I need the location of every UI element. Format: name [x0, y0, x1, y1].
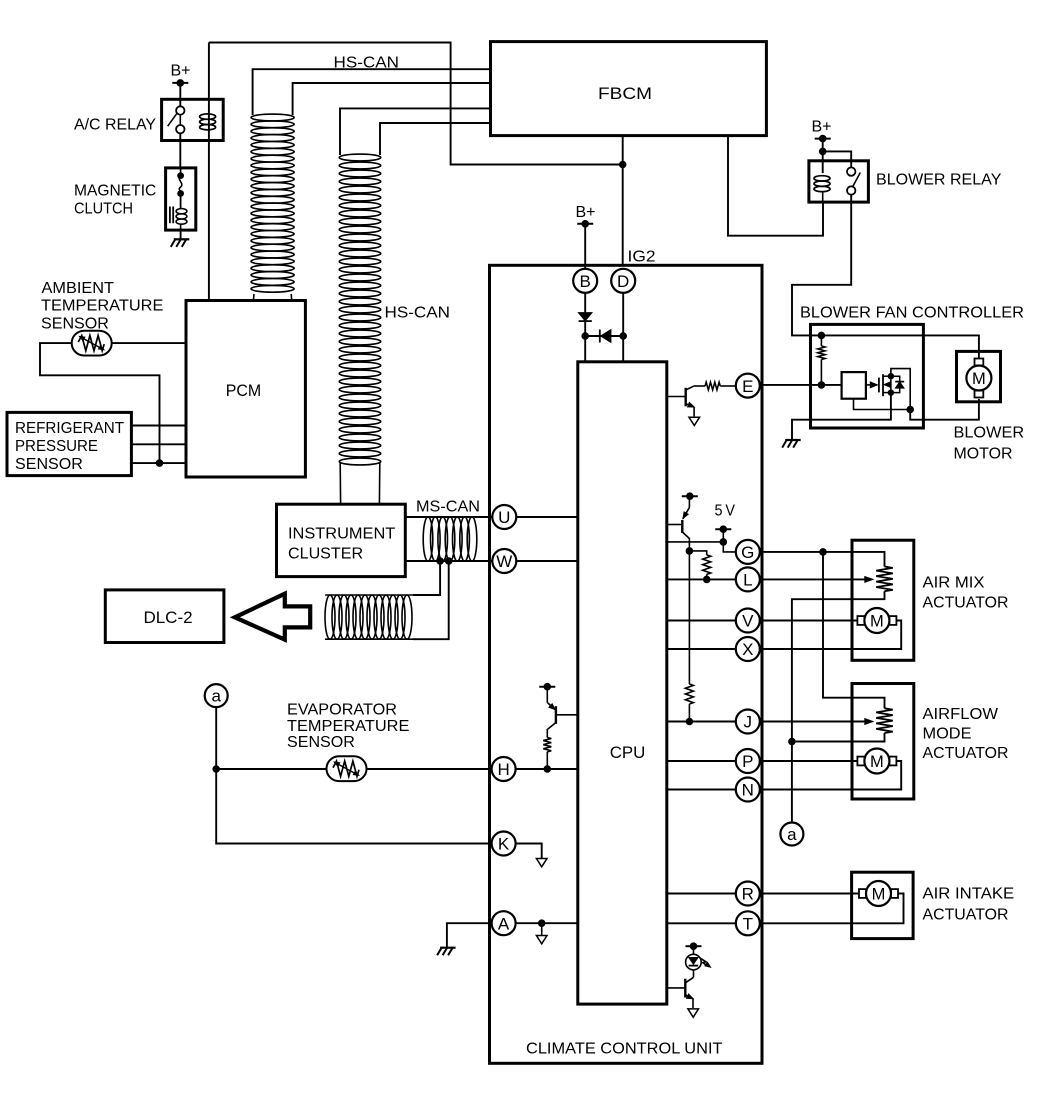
svg-text:BLOWER RELAY: BLOWER RELAY [876, 172, 1001, 189]
wire controller output to blower motor [910, 399, 979, 420]
airflow mode actuator box [852, 684, 914, 800]
svg-text:MS-CAN: MS-CAN [416, 499, 480, 516]
air intake actuator box [852, 872, 914, 938]
wire X to CPU [667, 648, 736, 650]
wire H into CPU [516, 768, 578, 770]
node 5V junction [720, 538, 728, 546]
blower fan controller box [811, 324, 924, 428]
svg-text:EVAPORATOR: EVAPORATOR [287, 702, 397, 719]
node a / evaporator junction [212, 765, 220, 773]
wire refrigerant sensor signal 2 [131, 443, 186, 445]
svg-text:TEMPERATURE: TEMPERATURE [41, 298, 163, 315]
svg-text:SENSOR: SENSOR [15, 456, 83, 473]
node B diode junction [581, 332, 589, 340]
svg-text:E: E [742, 377, 753, 396]
svg-text:a: a [211, 687, 221, 706]
wire branch to relay switch [823, 151, 852, 167]
terminal K [492, 832, 516, 856]
node H pull-up junction [544, 765, 552, 773]
svg-text:MODE: MODE [923, 726, 972, 743]
wire L resistor to L line [706, 574, 708, 579]
wire A junction to signal ground [541, 923, 543, 935]
magnetic clutch box [166, 168, 196, 230]
label AIR INTAKE ACTUATOR [923, 886, 1015, 924]
wire MS-CAN high [405, 516, 492, 518]
svg-text:B+: B+ [811, 119, 831, 136]
wire a down to K [216, 707, 492, 843]
wire resistor to H line [546, 752, 548, 769]
thermistor (evaporator temperature sensor) [327, 756, 367, 781]
wire DLC-2 branch high [413, 561, 440, 595]
svg-text:M: M [870, 613, 884, 631]
wire G driver collector down to J [688, 538, 690, 684]
label AIRFLOW MODE ACTUATOR [923, 706, 1009, 762]
svg-text:T: T [743, 915, 753, 934]
emitter arrow (H pull-up) [549, 704, 556, 710]
wire air mix pot return [792, 591, 885, 823]
node J junction [686, 718, 694, 726]
wire B+ feed to A/C relay / PCM vertical line [208, 43, 210, 301]
terminal T [736, 911, 760, 935]
terminal A [492, 911, 516, 935]
wire B+ into blower relay [822, 139, 824, 173]
wire J to CPU [667, 721, 736, 723]
magnetic clutch internal lead [177, 168, 184, 207]
svg-text:AMBIENT: AMBIENT [42, 280, 115, 297]
node refrigerant/ambient junction [156, 459, 164, 467]
svg-text:DLC-2: DLC-2 [143, 608, 192, 627]
wire G branch down to airflow actuator [823, 552, 885, 708]
motor M (air mix) [857, 608, 896, 633]
svg-text:N: N [742, 781, 754, 800]
twisted pair HS-CAN to PCM [251, 114, 294, 292]
wire refrigerant sensor signal 3 [131, 462, 186, 464]
svg-text:D: D [617, 272, 629, 291]
svg-text:TEMPERATURE: TEMPERATURE [287, 718, 409, 735]
wire clutch to ground [180, 230, 182, 239]
wire B+ to A/C relay [179, 83, 181, 99]
label AMBIENT TEMPERATURE SENSOR [41, 280, 163, 332]
svg-text:M: M [972, 370, 986, 388]
terminal E [736, 374, 760, 398]
svg-text:W: W [496, 552, 512, 571]
svg-text:J: J [744, 713, 753, 732]
svg-text:BLOWER FAN CONTROLLER: BLOWER FAN CONTROLLER [800, 305, 1024, 322]
svg-text:5 V: 5 V [715, 503, 736, 520]
svg-text:AIR MIX: AIR MIX [923, 575, 986, 592]
node G branch [819, 548, 827, 556]
svg-text:CLUSTER: CLUSTER [288, 546, 363, 563]
B+ terminal (A/C relay) [172, 79, 188, 87]
node L junction [703, 576, 711, 584]
supply terminal (indicator LED) [686, 942, 702, 950]
wire FBCM to blower relay coil [728, 136, 823, 236]
terminal V [736, 609, 760, 633]
DLC-2 box [105, 590, 224, 643]
svg-text:HS-CAN: HS-CAN [385, 305, 451, 322]
wire CAN-H to FBCM [253, 69, 491, 115]
CPU box [578, 362, 667, 1004]
wire R to CPU [667, 893, 736, 895]
twisted pair DLC-2 [325, 595, 412, 639]
wire CAN2-H to FBCM [340, 108, 491, 155]
LED light arrow [705, 962, 711, 967]
wire P to CPU [667, 760, 736, 762]
svg-text:B+: B+ [575, 204, 595, 221]
wire B+ to terminal B [584, 224, 586, 269]
svg-text:FBCM: FBCM [598, 84, 652, 103]
wire J resistor to J line [688, 704, 690, 722]
MOSFET Q (blower fan controller) [879, 374, 891, 396]
terminal J [736, 710, 760, 734]
driver block in controller [842, 372, 866, 399]
wire resistor to E line [820, 360, 822, 385]
wire B to diode [584, 293, 586, 362]
LED (indicator) [686, 946, 709, 970]
terminal P [736, 749, 760, 773]
wire air intake motor to T [760, 894, 904, 924]
wiper arrow (airflow mode) [865, 719, 874, 725]
label AIR MIX ACTUATOR [923, 575, 1009, 612]
svg-text:PRESSURE: PRESSURE [15, 438, 98, 455]
wire CAN-L to FBCM [293, 83, 491, 115]
wire between diode junctions [585, 335, 623, 337]
wire K to signal ground [516, 844, 542, 859]
wire twisted pair into PCM [253, 294, 291, 301]
terminal B [573, 269, 597, 293]
resistor in blower fan controller [820, 335, 822, 346]
wire airflow motor to N [760, 761, 901, 790]
circle a (left) [205, 684, 228, 707]
transistor Q (blower drive NPN) [667, 386, 694, 416]
signal ground (indicator) [688, 1009, 699, 1017]
transistor Q (H pull-up PNP) [547, 687, 578, 738]
label MAGNETIC CLUTCH [74, 183, 156, 218]
svg-text:CPU: CPU [610, 743, 646, 762]
wire U to CPU [492, 516, 578, 518]
instrument cluster box [277, 504, 406, 576]
node A ground junction [538, 919, 546, 927]
wire V to CPU [667, 620, 736, 622]
node controller output [906, 406, 914, 414]
body diode of MOSFET [891, 376, 904, 392]
ground (A) [437, 948, 456, 956]
wire E to driver block [760, 384, 841, 386]
wire MS-CAN low [405, 560, 492, 562]
supply terminal (G driver) [682, 492, 698, 500]
wire P to airflow motor [760, 760, 864, 762]
svg-text:MOTOR: MOTOR [954, 446, 1013, 463]
wire ambient sensor to PCM [112, 342, 186, 344]
wire top link from A/C relay line to IG2 node [209, 43, 623, 165]
svg-text:AIR INTAKE: AIR INTAKE [923, 886, 1015, 903]
terminal U [492, 505, 516, 529]
blower relay coil [814, 176, 830, 202]
node a-line junction [788, 738, 796, 746]
supply terminal (H pull-up) [539, 683, 555, 691]
node MOSFET source [888, 389, 894, 395]
wire blower relay to fan controller [792, 202, 979, 361]
emitter arrow (G driver) [683, 512, 688, 519]
terminal G [736, 540, 760, 564]
svg-text:M: M [870, 753, 884, 771]
svg-text:ACTUATOR: ACTUATOR [923, 907, 1009, 924]
wire ambient sensor left leg [40, 343, 160, 463]
wire driver block low side [854, 399, 911, 410]
ground (blower fan controller) [782, 440, 801, 448]
terminal R [736, 882, 760, 906]
svg-text:R: R [742, 885, 754, 904]
terminal D [611, 269, 635, 293]
supply terminal (5V) [715, 525, 731, 533]
diode D-to-B [600, 330, 611, 343]
node MS-CAN branch 1 [436, 557, 444, 565]
FBCM box [491, 42, 767, 136]
wire CPU to 5V junction [667, 541, 724, 543]
wire A into CPU [516, 922, 578, 924]
svg-text:REFRIGERANT: REFRIGERANT [15, 420, 125, 437]
wire MOSFET source to ground [792, 393, 891, 440]
refrigerant pressure sensor box [7, 412, 131, 475]
svg-text:B+: B+ [170, 63, 190, 80]
terminal W [492, 549, 516, 573]
wire DLC twisted pair top [325, 594, 413, 596]
svg-text:PCM: PCM [226, 381, 261, 400]
climate control unit box [490, 265, 763, 1063]
node IG2 junction [619, 161, 627, 169]
svg-text:A/C RELAY: A/C RELAY [74, 117, 156, 134]
svg-text:a: a [787, 825, 797, 844]
svg-text:AIRFLOW: AIRFLOW [923, 706, 999, 723]
gate drive arrow [866, 384, 873, 386]
svg-text:K: K [498, 835, 510, 854]
svg-text:INSTRUMENT: INSTRUMENT [288, 525, 396, 542]
wire twisted pair into instrument cluster [340, 463, 380, 504]
A/C relay switch [168, 99, 185, 140]
resistor (L pull-up) [703, 555, 711, 575]
wire R to air intake motor [760, 893, 866, 895]
svg-text:IG2: IG2 [628, 249, 656, 266]
wire refrigerant sensor signal 1 [131, 425, 186, 427]
wire drain to output [891, 369, 910, 410]
diode B-line [578, 313, 592, 322]
potentiometer (airflow mode) [876, 708, 893, 733]
A/C relay coil [200, 114, 216, 130]
svg-text:MAGNETIC: MAGNETIC [74, 183, 156, 200]
motor M (blower) [966, 359, 991, 398]
emitter arrow (blower drive) [687, 402, 694, 407]
label INSTRUMENT CLUSTER [288, 525, 396, 562]
wire junction to L resistor [689, 551, 706, 555]
B+ terminal (climate control unit) [577, 220, 593, 228]
terminal X [736, 637, 760, 661]
signal ground (A junction) [536, 936, 547, 944]
wire W to CPU [492, 560, 578, 562]
B+ terminal (blower relay) [815, 135, 831, 143]
svg-text:ACTUATOR: ACTUATOR [923, 595, 1009, 612]
wire A/C relay to magnetic clutch [179, 141, 181, 168]
ground (magnetic clutch) [171, 239, 190, 247]
A/C relay box [162, 99, 224, 140]
svg-text:U: U [498, 508, 510, 527]
arrow to DLC-2 [235, 594, 310, 640]
terminal L [736, 567, 760, 591]
blower relay box [809, 161, 869, 202]
thermistor (ambient temperature sensor) [72, 331, 112, 356]
wire J to airflow wiper [760, 721, 866, 723]
twisted pair MS-CAN [423, 517, 477, 561]
wire N to CPU [667, 789, 736, 791]
wire E out of unit [760, 384, 762, 386]
svg-text:BLOWER: BLOWER [954, 425, 1025, 442]
wire CAN2-L to FBCM [380, 123, 491, 155]
terminal H [492, 757, 516, 781]
resistor (H pull-up) [543, 738, 551, 752]
svg-text:P: P [742, 752, 753, 771]
wire evaporator sensor to H [216, 768, 492, 770]
svg-text:L: L [743, 571, 752, 590]
resistor (E line) [694, 385, 736, 387]
wire D line down to CPU [622, 293, 624, 362]
transistor Q (G driver PNP) [667, 496, 690, 538]
emitter arrow (indicator) [686, 994, 693, 999]
svg-text:G: G [741, 543, 754, 562]
svg-text:CLIMATE CONTROL UNIT: CLIMATE CONTROL UNIT [526, 1041, 723, 1058]
wire FBCM IG2 output [622, 136, 624, 266]
svg-text:ACTUATOR: ACTUATOR [923, 745, 1009, 762]
svg-text:M: M [872, 886, 886, 904]
node E line in controller [818, 381, 826, 389]
blower motor box [957, 351, 1001, 401]
air mix actuator box [852, 540, 914, 660]
signal ground (K) [536, 859, 547, 867]
label EVAPORATOR TEMPERATURE SENSOR [287, 702, 409, 751]
magnetic clutch coil [170, 196, 187, 230]
label BLOWER MOTOR [954, 425, 1025, 463]
node blower relay branch [819, 148, 827, 156]
wire A left to ground [447, 923, 492, 948]
svg-text:X: X [742, 640, 753, 659]
resistor (J pull-up) [685, 684, 693, 704]
node supply in controller [818, 332, 826, 340]
node MS-CAN branch 2 [445, 557, 453, 565]
wire DLC twisted pair bottom [325, 638, 413, 640]
wire airflow pot return [792, 733, 885, 742]
node D diode junction [619, 332, 627, 340]
wire 5V to junction [722, 529, 724, 542]
svg-text:CLUTCH: CLUTCH [74, 201, 133, 218]
transistor Q (indicator NPN) [667, 970, 694, 1008]
svg-text:B: B [580, 272, 591, 291]
node collector/L-resistor junction [686, 547, 694, 555]
potentiometer (air mix) [876, 567, 893, 592]
wire L to CPU [667, 578, 736, 580]
wiper arrow (air mix) [865, 576, 874, 582]
node MOSFET drain [888, 373, 894, 379]
svg-text:A: A [498, 914, 510, 933]
motor M (air intake) [859, 881, 898, 906]
wire V to air mix motor [760, 620, 864, 622]
terminal N [736, 778, 760, 802]
MOSFET source arrow [884, 382, 891, 388]
twisted pair HS-CAN to instrument cluster [339, 154, 381, 465]
svg-text:SENSOR: SENSOR [287, 734, 355, 751]
wire DLC-2 branch low [413, 561, 449, 639]
wire G to air mix actuator [760, 552, 885, 567]
PCM box [186, 301, 305, 478]
signal ground (blower drive) [689, 417, 700, 425]
blower relay switch [847, 167, 860, 202]
circle a (right) [780, 823, 803, 846]
motor M (airflow mode) [857, 749, 896, 774]
wire air mix motor to X [760, 621, 901, 650]
svg-text:H: H [497, 760, 509, 779]
wire L to air mix wiper [760, 578, 866, 580]
label REFRIGERANT PRESSURE SENSOR [15, 420, 125, 473]
wire 5V junction to G [723, 542, 736, 552]
wire T to CPU [667, 922, 736, 924]
svg-text:V: V [742, 612, 754, 631]
